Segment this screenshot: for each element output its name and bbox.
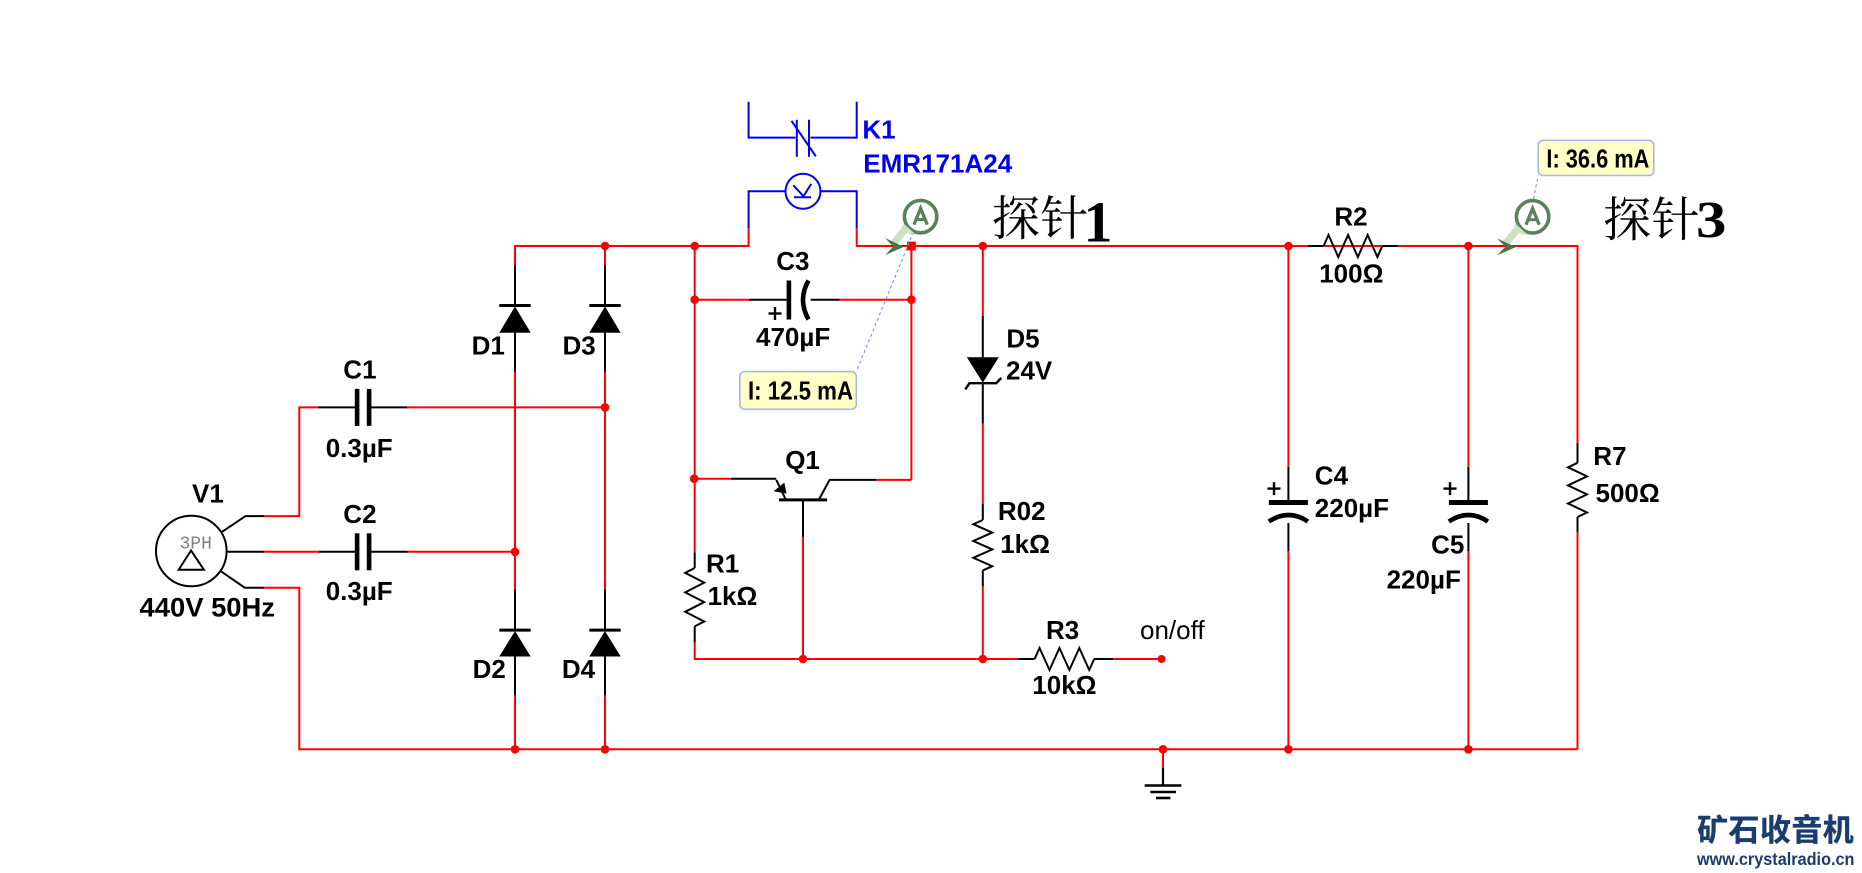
junction dot C5 bottom bus (1464, 745, 1473, 754)
capacitor C3 right lead (811, 299, 840, 301)
wire Q1 base red segment (802, 537, 804, 659)
svg-text:R2: R2 (1334, 202, 1367, 232)
transistor Q1 collector lead (830, 479, 876, 481)
svg-text:C2: C2 (343, 499, 376, 529)
wire V1 bottom terminal red and down to bottom bus (263, 588, 516, 750)
resistor R7 body (1568, 463, 1587, 517)
wire right bus corner down to R7 (1577, 245, 1579, 443)
source V1 top terminal lead (222, 516, 264, 532)
wire R1 bottom red to base row corner (695, 642, 803, 659)
svg-text:C3: C3 (776, 246, 809, 276)
wire R02 column red above resistor (982, 424, 984, 504)
wire C5 column red above (1467, 246, 1469, 467)
relay K1 coil right vertical blue (856, 190, 858, 228)
svg-text:3: 3 (1696, 192, 1726, 249)
capacitor C1 leads (318, 406, 355, 408)
svg-text:R7: R7 (1593, 441, 1626, 471)
wire D5 column red from top bus (982, 246, 984, 316)
junction dot ground at bottom bus (1159, 745, 1168, 754)
svg-text:D4: D4 (562, 654, 596, 684)
capacitor C4 plates (1269, 500, 1308, 505)
wire D3 bottom through C1 junction to D4 top (604, 372, 606, 590)
probe 3 ammeter symbol (1497, 201, 1549, 256)
svg-text:24V: 24V (1006, 355, 1053, 385)
relay K1 coil left vertical blue (748, 190, 750, 228)
junction dot C5 on top bus (1464, 242, 1473, 251)
relay K1 contact bars and slash (796, 120, 798, 157)
diode D3 bottom lead (604, 333, 606, 372)
wire bottom bus (515, 748, 1578, 750)
svg-text:I: 36.6 mA: I: 36.6 mA (1546, 144, 1649, 174)
transistor Q1 emitter diagonal (776, 480, 786, 500)
diode D1 top lead (514, 266, 516, 306)
zener diode D5 bar with bends (965, 378, 1001, 390)
wire C3 row left red (695, 299, 749, 301)
svg-text:1: 1 (1084, 189, 1113, 254)
transistor Q1 base stem (802, 500, 804, 537)
capacitor C5 bottom lead (1467, 523, 1469, 551)
svg-text:0.3µF: 0.3µF (326, 576, 393, 606)
svg-text:R1: R1 (706, 549, 739, 579)
svg-text:on/off: on/off (1140, 615, 1205, 645)
junction dot C2 row at D1 column (511, 548, 520, 557)
svg-text:V1: V1 (192, 479, 224, 509)
resistor R7 bottom lead (1577, 517, 1579, 532)
resistor R1 bottom lead (694, 626, 696, 642)
probe 1 connector line (856, 232, 913, 372)
svg-text:I: 12.5 mA: I: 12.5 mA (748, 376, 853, 406)
wire D3 top lead stub (604, 245, 606, 266)
source V1 bottom terminal lead (221, 571, 264, 587)
svg-text:D2: D2 (473, 654, 506, 684)
source V1 delta triangle (179, 551, 204, 570)
junction dot C3 row left (690, 295, 699, 304)
junction dot C4 bottom bus (1284, 745, 1293, 754)
probe 3 value box I: 36.6 mA (1538, 140, 1654, 175)
diode D4 top lead (604, 590, 606, 631)
wire C3 left column from top bus to C3 row (694, 246, 696, 300)
svg-text:1kΩ: 1kΩ (708, 581, 758, 611)
wire D2 bottom to bottom bus (514, 695, 516, 750)
wire top bus right segment (857, 245, 1578, 247)
junction dot Q1 emitter / R1 top (690, 474, 699, 483)
wire C4 column red above (1287, 246, 1289, 467)
diode D2 bottom lead (514, 657, 516, 696)
wire Q1 collector lead red to corner (876, 479, 912, 481)
ground symbol (1162, 768, 1164, 785)
svg-text:C5: C5 (1431, 529, 1464, 559)
resistor R3 left lead (1019, 658, 1035, 660)
wire C3-left column down to Q1 emitter row (694, 300, 696, 479)
resistor R3 body (1035, 648, 1095, 670)
relay K1 contact left terminal (749, 102, 796, 138)
junction dot C4 on top bus (1284, 242, 1293, 251)
resistor R7 top lead (1577, 443, 1579, 463)
wire ground stem red (1162, 749, 1164, 768)
resistor R1 top lead (694, 553, 696, 569)
svg-text:440V 50Hz: 440V 50Hz (140, 593, 276, 623)
wire C5 column red below to bottom bus (1467, 551, 1469, 749)
wire D1 bottom to C2 row to D2 top (514, 372, 516, 590)
wire base row to R02 column (803, 658, 983, 660)
svg-text:3PH: 3PH (180, 535, 212, 555)
wire V1 top terminal red to corner (263, 515, 300, 517)
transistor Q1 emitter lead (731, 478, 776, 480)
node on/off open end point (1158, 655, 1166, 663)
wire top bus left segment (bridge output + node) (515, 245, 749, 247)
transistor Q1 base bar (779, 498, 827, 501)
relay K1 coil left wire (749, 190, 786, 192)
junction dot C1 row at D3 column (601, 403, 610, 412)
resistor R2 left lead (1308, 245, 1323, 247)
svg-text:1kΩ: 1kΩ (1000, 529, 1050, 559)
svg-text:10kΩ: 10kΩ (1032, 670, 1096, 700)
wire R7 column red below resistor (1577, 531, 1579, 750)
relay K1 coil K symbol (794, 196, 811, 198)
junction dot D2 bottom bus (511, 745, 520, 754)
junction square probe 1 attachment on top bus (907, 242, 916, 251)
resistor R02 top lead (982, 504, 984, 520)
svg-text:0.3µF: 0.3µF (326, 433, 393, 463)
wire relay left vertical red (748, 228, 750, 247)
svg-text:K1: K1 (862, 115, 895, 145)
probe 1 ammeter symbol (885, 200, 937, 255)
capacitor C3 plates (787, 281, 792, 320)
diode D2 top lead (514, 590, 516, 631)
diode D1 bottom lead (514, 333, 516, 372)
svg-text:470µF: 470µF (756, 322, 830, 352)
capacitor C4 plus sign (1268, 487, 1281, 489)
wire C2 right lead to D1 column (407, 551, 515, 553)
junction dot C3 row right (907, 295, 916, 304)
transistor Q1 emitter arrow (774, 483, 787, 494)
capacitor C5 plus sign (1444, 487, 1457, 489)
zener diode D5 bottom lead (982, 383, 984, 424)
resistor R02 bottom lead (982, 570, 984, 586)
resistor R3 right lead (1094, 658, 1113, 660)
svg-text:C4: C4 (1315, 461, 1349, 491)
svg-text:220µF: 220µF (1387, 564, 1461, 594)
diode D2 (499, 629, 530, 632)
capacitor C5 top lead (1467, 467, 1469, 500)
resistor R2 right lead (1382, 245, 1397, 247)
capacitor C4 bottom lead (1287, 523, 1289, 551)
wire C3 row right red to Q1 collector column (840, 299, 912, 301)
svg-text:100Ω: 100Ω (1319, 258, 1383, 288)
wire D1-D3 column top: D1 top lead stub (514, 245, 516, 266)
svg-text:D5: D5 (1006, 324, 1039, 354)
wire bottom bus right corner up to R7 (1577, 531, 1579, 750)
wire C1 right lead to D3 column (407, 406, 605, 408)
resistor R02 body (973, 520, 992, 570)
wire D4 bottom to bottom bus (604, 695, 606, 750)
source V1 3-phase circle (156, 516, 227, 587)
resistor R1 body (685, 568, 704, 626)
capacitor C4 top lead (1287, 467, 1289, 500)
capacitor C1 (355, 389, 360, 426)
svg-text:C1: C1 (343, 355, 376, 385)
wire R02 column red below resistor to base row (982, 586, 984, 659)
probe 3 connector line (1534, 176, 1539, 199)
wire Q1 collector column: top bus to C3 row to collector (910, 246, 912, 480)
svg-text:R3: R3 (1046, 615, 1079, 645)
wire base row to R3 left lead (983, 658, 1019, 660)
diode D3 (589, 304, 620, 307)
svg-text:www.crystalradio.cn: www.crystalradio.cn (1696, 849, 1854, 869)
svg-text:D3: D3 (563, 331, 596, 361)
capacitor C2 (355, 533, 360, 570)
svg-text:Q1: Q1 (785, 445, 820, 475)
diode D1 (499, 304, 530, 307)
wire Q1 emitter row red (694, 478, 731, 480)
svg-text:R02: R02 (998, 496, 1046, 526)
wire relay right vertical red (856, 228, 858, 247)
junction dot D4 bottom bus (601, 745, 610, 754)
source V1 middle terminal lead (227, 551, 264, 553)
diode D3 top lead (604, 266, 606, 306)
junction dot Q1 base at base row (799, 655, 808, 664)
capacitor C2 leads (319, 551, 355, 553)
svg-text:500Ω: 500Ω (1596, 478, 1660, 508)
wire R3 right lead red to on/off end point (1113, 658, 1161, 660)
wire R1 column red above (694, 479, 696, 553)
relay K1 coil circle (786, 174, 821, 209)
wire C2 row red segment V1 to C2 (263, 551, 319, 553)
capacitor C5 plates (1449, 500, 1488, 505)
watermark logo kuangshi shouyinji (1698, 814, 1854, 844)
junction dot R02 at base row (979, 655, 988, 664)
capacitor C3 plus sign (769, 312, 782, 314)
junction dot D3 top bus (601, 242, 610, 251)
junction dot D5 column on top bus (979, 242, 988, 251)
transistor Q1 collector diagonal (819, 479, 830, 499)
wire C1 row: V1 top corner to C1 left lead (299, 407, 318, 516)
zener diode D5 top lead (982, 316, 984, 357)
resistor R2 body (1324, 235, 1383, 257)
probe 1 value box I: 12.5 mA (740, 372, 857, 410)
svg-text:D1: D1 (472, 331, 505, 361)
capacitor C3 left lead (749, 299, 787, 301)
zener diode D5 triangle (967, 357, 999, 382)
junction dot C3-left column on top bus (690, 242, 699, 251)
svg-text:220µF: 220µF (1315, 493, 1389, 523)
diode D4 (589, 629, 620, 632)
wire C4 column red below to bottom bus (1287, 551, 1289, 749)
svg-text:EMR171A24: EMR171A24 (863, 149, 1012, 179)
label probe net name tanzhen3 (1605, 196, 1698, 240)
relay K1 contact right terminal (811, 102, 857, 138)
diode D4 bottom lead (604, 657, 606, 696)
label probe net name tanzhen1 (994, 195, 1087, 239)
